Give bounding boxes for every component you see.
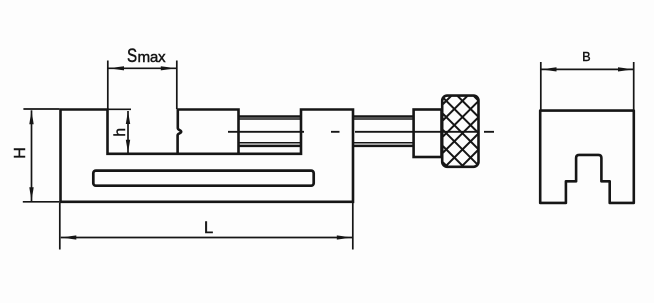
- svg-text:L: L: [204, 219, 213, 237]
- svg-text:H: H: [12, 147, 29, 159]
- svg-text:h: h: [112, 128, 129, 137]
- svg-text:max: max: [138, 49, 166, 66]
- svg-text:S: S: [127, 44, 137, 66]
- svg-text:B: B: [582, 50, 590, 64]
